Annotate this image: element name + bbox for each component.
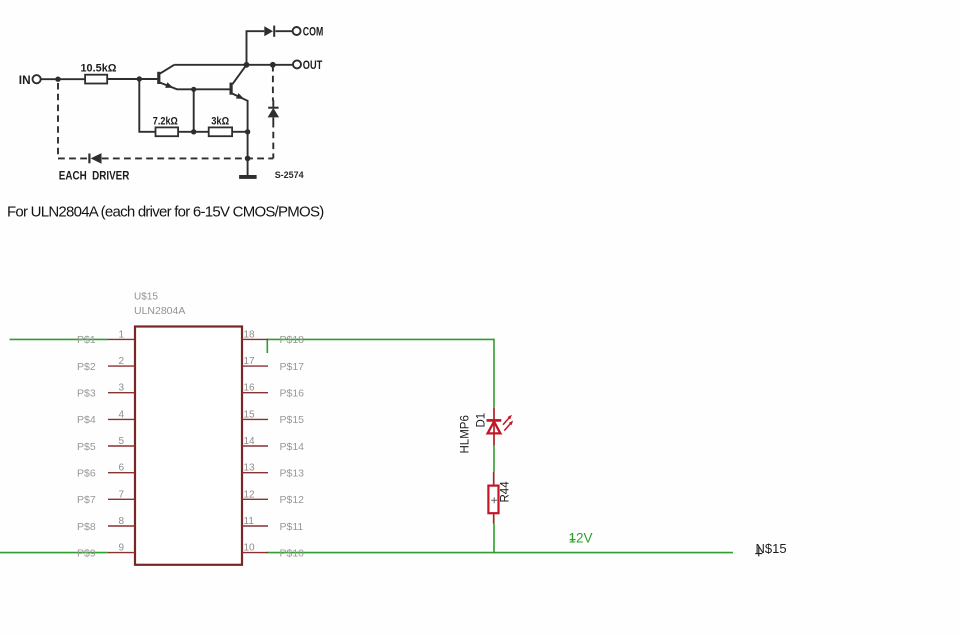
ground bar (239, 175, 257, 179)
node dot Q2 base / divider (191, 87, 196, 92)
LED light arrow 1 shaft (503, 417, 510, 425)
LED D1 triangle (488, 422, 501, 434)
pin 6 stub (108, 472, 135, 474)
boundary diode bar (88, 154, 90, 164)
LED D1 cathode bar (487, 419, 502, 422)
svg-text:For ULN2804A (each driver for: For ULN2804A (each driver for 6-15V CMOS… (7, 203, 324, 220)
resistor R44 pin bottom (493, 513, 495, 523)
svg-text:2: 2 (118, 356, 124, 367)
clamp diode triangle (268, 108, 280, 118)
svg-text:P$9: P$9 (77, 547, 96, 559)
svg-text:P$3: P$3 (77, 388, 96, 400)
svg-text:P$16: P$16 (280, 388, 305, 400)
pin 18 stub (242, 338, 268, 340)
pin 11 stub (242, 525, 268, 527)
net stub below pin18 wire (266, 339, 268, 353)
svg-text:9: 9 (118, 543, 124, 554)
svg-text:EACH DRIVER: EACH DRIVER (59, 168, 130, 182)
terminal circle COM (293, 27, 301, 35)
dashed wire clamp diode down (272, 121, 274, 158)
svg-text:P$13: P$13 (280, 468, 305, 480)
svg-text:P$8: P$8 (77, 521, 96, 533)
svg-text:IN: IN (19, 73, 31, 87)
net wire P$1 row (10, 338, 109, 340)
LED D1 pin wire (493, 408, 495, 445)
svg-text:R44: R44 (500, 481, 512, 503)
svg-text:4: 4 (118, 409, 124, 420)
svg-text:17: 17 (244, 356, 256, 367)
Q1 emitter arrow (165, 82, 173, 88)
svg-text:P$12: P$12 (280, 494, 305, 506)
svg-text:P$7: P$7 (77, 494, 96, 506)
resistor R44 pin top (493, 472, 495, 486)
transistor Q2 base bar (230, 83, 233, 95)
svg-text:16: 16 (244, 383, 256, 394)
net label origin cross (755, 546, 762, 556)
node dot emitter line (245, 129, 250, 134)
svg-text:U$15: U$15 (134, 292, 158, 303)
svg-text:5: 5 (118, 436, 124, 447)
pin 1 stub (108, 338, 135, 340)
pin 8 stub (108, 525, 135, 527)
net wire P$9 row (0, 552, 108, 554)
pin 9 stub (108, 552, 135, 554)
wire IN to resistor 10.5k (41, 78, 86, 80)
Q2 emitter arrow (236, 93, 244, 99)
svg-text:3: 3 (118, 383, 124, 394)
svg-text:14: 14 (244, 436, 256, 447)
svg-text:P$17: P$17 (280, 361, 305, 373)
diode D-COM bar (273, 26, 275, 37)
clamp diode stub top (272, 100, 274, 107)
svg-text:P$15: P$15 (280, 414, 305, 426)
diode D-COM triangle (264, 26, 273, 36)
svg-text:15: 15 (244, 409, 256, 420)
resistor 7.2k box (156, 127, 179, 136)
pin 10 stub (242, 552, 268, 554)
supply origin cross (570, 534, 576, 542)
svg-text:P$14: P$14 (280, 441, 305, 453)
wire divider vertical (193, 89, 195, 132)
svg-text:7.2kΩ: 7.2kΩ (153, 116, 178, 128)
svg-text:10: 10 (244, 543, 256, 554)
clamp diode bar (268, 107, 278, 109)
svg-text:8: 8 (118, 516, 124, 527)
svg-text:3kΩ: 3kΩ (211, 116, 229, 128)
transistor Q1 base bar (157, 72, 160, 84)
svg-text:P$10: P$10 (280, 547, 305, 559)
svg-text:P$2: P$2 (77, 361, 96, 373)
pin 14 stub (242, 445, 268, 447)
transistor Q2 collector (232, 65, 246, 84)
svg-text:10.5kΩ: 10.5kΩ (81, 63, 117, 75)
transistor Q1 collector (160, 65, 174, 74)
pin 17 stub (242, 365, 268, 367)
svg-text:13: 13 (244, 463, 256, 474)
pin 12 stub (242, 498, 268, 500)
svg-text:P$4: P$4 (77, 414, 96, 426)
net wire LED column upper (493, 339, 495, 408)
IC U$15 body (135, 327, 242, 565)
svg-text:P$5: P$5 (77, 441, 96, 453)
terminal circle IN (33, 75, 41, 83)
svg-text:1: 1 (118, 329, 124, 340)
net wire LED to R44 (493, 445, 495, 472)
LED light arrow 2 head (509, 421, 513, 426)
wire node down to 7.2k (139, 79, 155, 132)
svg-text:COM: COM (303, 24, 324, 38)
net wire R44 to bottom rail (493, 524, 495, 554)
node dot ground branch (245, 156, 251, 162)
wire 3k to emitter line (232, 131, 248, 133)
pin 13 stub (242, 472, 268, 474)
node dot at IN branch (55, 77, 60, 82)
LED light arrow 2 shaft (504, 423, 511, 431)
wire resistor to Q1 base (107, 78, 157, 80)
node dot OUT at dashed branch (270, 62, 276, 68)
wire OUT horizontal (174, 64, 292, 66)
node dot between resistors (191, 129, 196, 134)
wire COM vertical (247, 31, 265, 65)
svg-text:ULN2804A: ULN2804A (134, 305, 185, 317)
resistor 10.5k box (85, 75, 107, 84)
svg-text:P$1: P$1 (77, 334, 96, 346)
svg-text:S-2574: S-2574 (275, 170, 305, 181)
svg-text:D1: D1 (476, 413, 488, 428)
pin 16 stub (242, 392, 268, 394)
svg-text:P$11: P$11 (280, 521, 304, 533)
wire 7.2k to 3k (178, 131, 209, 133)
terminal circle OUT (293, 60, 301, 68)
LED light arrow 1 head (508, 415, 512, 420)
svg-text:11: 11 (244, 516, 255, 527)
resistor 3k box (209, 127, 232, 136)
pin 3 stub (108, 392, 135, 394)
net wire bottom rail 12V (267, 552, 734, 554)
pin 15 stub (242, 418, 268, 420)
dashed boundary bottom left (58, 157, 89, 159)
transistor Q2 emitter (232, 94, 247, 175)
boundary diode triangle (91, 153, 102, 164)
wire diode to COM (275, 30, 292, 32)
pin 2 stub (108, 365, 135, 367)
svg-text:P$6: P$6 (77, 468, 96, 480)
svg-text:6: 6 (118, 463, 124, 474)
node dot Q1 base branch (137, 76, 142, 81)
net wire pin18 to LED column (267, 338, 495, 340)
dashed boundary left vertical (57, 83, 59, 158)
svg-text:P$18: P$18 (280, 334, 305, 346)
dashed boundary bottom right (102, 157, 273, 159)
dashed wire to clamp diode (272, 65, 274, 101)
pin 7 stub (108, 498, 135, 500)
pin 4 stub (108, 418, 135, 420)
svg-text:18: 18 (244, 329, 256, 340)
node dot OUT main (244, 62, 250, 68)
clamp diode stub bottom (272, 117, 274, 121)
svg-text:OUT: OUT (303, 58, 323, 72)
svg-text:7: 7 (118, 489, 124, 500)
svg-text:12: 12 (244, 489, 256, 500)
svg-text:HLMP6: HLMP6 (460, 415, 472, 453)
pin 5 stub (108, 445, 135, 447)
resistor R44 body (488, 486, 498, 514)
R44 origin cross (491, 497, 497, 503)
transistor Q1 emitter (160, 83, 230, 90)
